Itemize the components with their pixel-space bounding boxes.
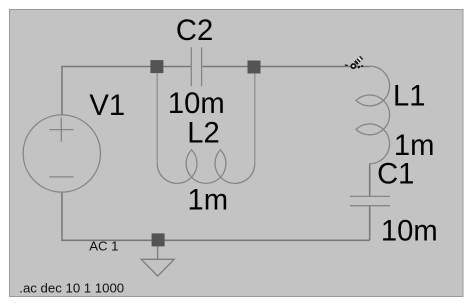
svg-text:1m: 1m <box>188 184 229 216</box>
wire top rail left: V1 top to C2 left plate <box>62 67 191 115</box>
inductor L1 coil <box>356 66 390 164</box>
wire top rail right: C2 right plate to L1 top <box>202 66 370 68</box>
svg-text:L1: L1 <box>393 81 425 113</box>
svg-text:C1: C1 <box>377 159 414 191</box>
svg-text:10m: 10m <box>168 88 225 120</box>
svg-text:V1: V1 <box>89 90 125 122</box>
svg-text:AC 1: AC 1 <box>89 239 118 254</box>
wire L2 right riser <box>254 67 256 164</box>
inductor L2 coil <box>157 150 255 184</box>
node square top-left <box>150 60 163 73</box>
wire V1 bottom to bottom rail <box>62 192 370 240</box>
wire L2 left riser <box>156 67 158 164</box>
node square ground <box>152 233 165 246</box>
wire C1 bottom column <box>369 206 371 241</box>
node square top-right <box>248 61 261 74</box>
cursor icon on wire <box>345 56 363 69</box>
svg-text:1m: 1m <box>394 130 435 162</box>
wire C1 top column <box>369 164 371 197</box>
voltage source V1 circle <box>23 115 100 192</box>
svg-text:.ac dec 10 1 1000: .ac dec 10 1 1000 <box>19 280 124 295</box>
svg-text:C2: C2 <box>176 15 213 47</box>
V1 minus sign <box>49 176 73 178</box>
svg-text:10m: 10m <box>381 216 438 248</box>
ground symbol <box>141 246 174 276</box>
capacitor C2 plates <box>191 47 201 86</box>
capacitor C1 plates <box>350 196 390 205</box>
svg-text:L2: L2 <box>187 118 219 150</box>
V1 plus sign <box>49 118 73 142</box>
